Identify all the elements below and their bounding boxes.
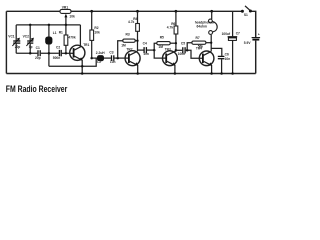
svg-text:5p: 5p (29, 45, 33, 49)
resistor R2 10k (90, 10, 100, 58)
svg-text:L1: L1 (53, 31, 57, 35)
capacitor C2 500n (53, 46, 61, 60)
inductor L1 (45, 25, 57, 66)
node: emitter crossing (81, 65, 84, 68)
svg-text:4.7k: 4.7k (167, 26, 174, 30)
resistor R6 4.7k (167, 10, 178, 51)
svg-text:C4: C4 (143, 42, 147, 46)
svg-text:C1: C1 (36, 46, 40, 50)
wire: L2 to C3 (104, 57, 111, 59)
svg-text:+: + (258, 32, 260, 36)
wire: C2 to TR1 base (62, 52, 74, 54)
node: TR2 emitter at rail (136, 72, 139, 75)
svg-text:R2: R2 (94, 26, 98, 30)
wire: collector node to C6 (211, 48, 222, 56)
wire: C1 to C2 (41, 52, 59, 54)
svg-text:5.9V: 5.9V (244, 41, 252, 45)
capacitor C1 20p (35, 46, 41, 60)
wire: right edge top segment (251, 11, 256, 37)
node: C7 at rail (231, 72, 234, 75)
svg-text:20p: 20p (35, 56, 41, 60)
transistor TR2 (125, 48, 140, 74)
wire: drop to TR3 base (154, 50, 166, 58)
node: R2 bottom junction (90, 57, 93, 60)
svg-text:C7: C7 (236, 32, 240, 36)
svg-text:4.7k: 4.7k (128, 20, 135, 24)
svg-text:10n: 10n (110, 60, 116, 64)
svg-text:100n: 100n (178, 52, 185, 56)
svg-text:64ohm: 64ohm (197, 25, 208, 29)
wire: C3 to TR2 base (114, 57, 128, 59)
potentiometer VR1 (60, 5, 75, 25)
switch S1 (241, 6, 252, 17)
variable capacitor VC2 5p (23, 25, 34, 53)
svg-text:C3: C3 (109, 50, 113, 54)
node: R1 bottom junction (65, 52, 68, 55)
transistor TR1 (70, 25, 90, 74)
headphones 64ohm (195, 10, 217, 35)
svg-text:R1: R1 (59, 30, 63, 34)
svg-text:20p: 20p (15, 45, 21, 49)
svg-text:FM Radio Receiver: FM Radio Receiver (6, 84, 68, 94)
capacitor C7 100uf (222, 11, 240, 73)
wire: emitter feedback wire (49, 58, 96, 66)
svg-text:C6: C6 (225, 52, 229, 56)
svg-text:500n: 500n (53, 56, 60, 60)
wire: left frame edge (5, 11, 7, 73)
resistor R7 56k (187, 36, 211, 50)
resistor R4 4.7k (128, 10, 139, 51)
svg-text:L2: L2 (97, 60, 101, 64)
wire: bottom rail (6, 73, 255, 75)
resistor R3 1M (118, 32, 138, 58)
svg-text:10k: 10k (69, 15, 75, 19)
node: R3 left junction (116, 57, 119, 60)
capacitor C6 10n (218, 52, 230, 73)
node: VC2 top (29, 24, 32, 27)
inductor L2 2.2uH (96, 51, 106, 64)
svg-text:1M: 1M (158, 45, 163, 49)
battery 5.9V (244, 32, 260, 45)
svg-text:R3: R3 (126, 32, 130, 36)
svg-text:10k: 10k (94, 31, 100, 35)
svg-text:S1: S1 (244, 13, 248, 17)
resistor R5 1M (154, 36, 176, 51)
wire: node to L2 (92, 57, 97, 59)
node: TR3 emitter at rail (174, 72, 177, 75)
node: R7 right junction (210, 42, 212, 44)
node: R7 left junction (186, 49, 189, 52)
svg-text:TR3: TR3 (165, 48, 171, 52)
capacitor C3 10n (109, 50, 115, 64)
node: R5 left junction (153, 49, 156, 52)
svg-text:VC2: VC2 (23, 35, 30, 39)
svg-text:C5: C5 (181, 42, 185, 46)
svg-text:2.2uH: 2.2uH (96, 51, 106, 55)
variable capacitor VC1 20p (8, 25, 20, 53)
svg-text:1M: 1M (121, 44, 126, 48)
svg-text:R7: R7 (196, 36, 200, 40)
transistor TR3 (163, 48, 178, 74)
svg-text:TR2: TR2 (126, 48, 132, 52)
node: L1 bottom (48, 52, 51, 55)
capacitor C5 100n (178, 42, 186, 56)
svg-text:C2: C2 (56, 46, 60, 50)
svg-text:470k: 470k (68, 36, 75, 40)
svg-text:TR1: TR1 (83, 43, 89, 47)
node: wiper junction (65, 24, 68, 27)
wire: TR4 collector riser (210, 35, 212, 52)
svg-text:R5: R5 (160, 36, 164, 40)
capacitor C4 10n (143, 42, 149, 56)
node: VC2 bottom (29, 52, 32, 55)
svg-text:TR4: TR4 (196, 47, 202, 51)
wire: tank bottom wire (16, 52, 37, 54)
node: C6 at rail (220, 72, 223, 75)
svg-text:VC1: VC1 (8, 34, 15, 38)
svg-text:10n: 10n (225, 57, 231, 61)
wire: collector to C5 (176, 49, 182, 51)
node: TR4 emitter at rail (210, 72, 213, 75)
svg-text:100uf: 100uf (222, 32, 231, 36)
wire: top supply rail (6, 10, 242, 12)
node: TR1 emitter at rail (81, 72, 84, 75)
resistor R1 470k (59, 25, 76, 53)
transistor TR4 (196, 47, 214, 74)
wire: C4 to junction (147, 49, 154, 51)
wire: TR2 collector to C4 (138, 49, 144, 51)
wire: right edge bottom segment (255, 41, 257, 74)
svg-text:VR1: VR1 (62, 5, 69, 9)
node: TR3 collector junction (175, 49, 178, 52)
wire: C5 to TR4 base with drop (186, 50, 203, 58)
svg-text:10n: 10n (143, 52, 149, 56)
node: L1 top (48, 24, 51, 27)
wire: tank top wire (16, 24, 80, 26)
